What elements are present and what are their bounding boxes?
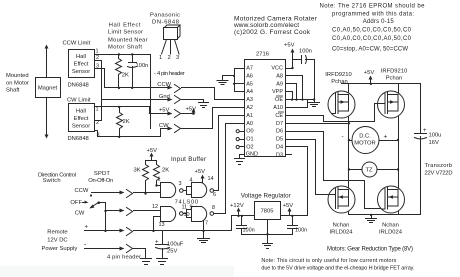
motor shaft line with arrows	[45, 45, 49, 139]
wire hall1 pin2 to gnd row	[95, 61, 102, 100]
svg-text:Note: This circuit is only use: Note: This circuit is only useful for lo…	[261, 258, 396, 264]
svg-text:22V V722D: 22V V722D	[425, 171, 453, 177]
wire right bus down to capacitor C6 and ground	[420, 84, 422, 215]
hall effect sensor U3 (CW limit) box	[69, 104, 95, 132]
pin numbers hall1	[96, 49, 100, 139]
svg-text:A10: A10	[273, 105, 283, 111]
svg-text:Shaft: Shaft	[6, 88, 20, 94]
capacitor C5 100n at reg output	[288, 216, 298, 235]
svg-text:Power Supply: Power Supply	[42, 246, 78, 252]
wire -12V after header to ground	[134, 249, 146, 259]
svg-text:D4: D4	[276, 145, 283, 151]
svg-text:+5V: +5V	[195, 169, 206, 175]
+5V arrow above 2716 VCC	[286, 49, 295, 69]
title block	[233, 16, 318, 36]
transzorb T2 circle	[362, 162, 377, 177]
svg-text:3: 3	[176, 55, 179, 61]
svg-text:2716: 2716	[256, 52, 269, 58]
svg-text:1: 1	[159, 55, 162, 61]
svg-text:A2: A2	[246, 105, 253, 111]
svg-text:A0: A0	[246, 121, 253, 127]
svg-text:O2: O2	[246, 145, 253, 151]
svg-text:OE: OE	[275, 97, 283, 103]
svg-text:On-Off-On: On-Off-On	[88, 178, 113, 184]
wire Q2 source to +5V rail	[398, 84, 400, 94]
motor M2 D.C. MOTOR	[352, 127, 379, 154]
svg-text:+: +	[155, 240, 159, 246]
svg-text:A8: A8	[276, 73, 283, 79]
regulator ground rail	[242, 220, 293, 244]
direction switch S1 OFF arrow	[83, 201, 89, 204]
svg-text:A6: A6	[246, 73, 253, 79]
svg-text:4: 4	[190, 178, 193, 184]
svg-text:-: -	[154, 71, 156, 77]
wire U4A out to U4B inputs	[184, 187, 192, 195]
ground symbol (regulator)	[263, 244, 273, 249]
junction dots gate inputs	[144, 184, 157, 194]
right motor bus	[398, 122, 400, 188]
capacitor C2 100uF 25V electrolytic	[156, 231, 170, 259]
ground symbol (A7-A4)	[217, 81, 228, 85]
ground symbol (2716 GND)	[235, 159, 245, 165]
svg-text:D7: D7	[276, 121, 283, 127]
gate pin numbers	[152, 176, 216, 228]
wire switch common to CW out and +12 rail	[99, 203, 106, 231]
svg-text:Panasonic: Panasonic	[150, 13, 180, 19]
svg-text:100n: 100n	[136, 63, 149, 69]
svg-text:Pchan: Pchan	[331, 79, 347, 85]
svg-text:Nchan: Nchan	[333, 223, 350, 229]
svg-text:MOTOR: MOTOR	[354, 141, 375, 147]
capacitor C3 100n at 2716 VCC	[293, 56, 315, 64]
svg-text:C0=stop, A0=CW, 50=CCW: C0=stop, A0=CW, 50=CCW	[332, 47, 408, 53]
svg-text:100n: 100n	[243, 228, 255, 234]
ground symbol (2716 right)	[309, 100, 320, 107]
svg-text:on Motor: on Motor	[6, 81, 29, 87]
svg-text:C0,A0,C0,C0,C0,A0,50,C0: C0,A0,C0,C0,C0,A0,50,C0	[332, 36, 412, 42]
svg-text:+: +	[85, 225, 89, 231]
wire CCW switch line to gate1 input pin2	[134, 192, 161, 194]
transistor Q1 IRFD9210 Pchan	[328, 91, 355, 118]
svg-text:2K: 2K	[123, 119, 130, 125]
svg-text:D3: D3	[276, 152, 283, 158]
svg-text:A3: A3	[246, 97, 253, 103]
svg-text:CW: CW	[159, 123, 169, 129]
overlines for OE and CE	[276, 96, 284, 112]
wire motor left pin	[349, 140, 353, 142]
svg-text:SPDT: SPDT	[94, 171, 110, 177]
wire CW row	[161, 128, 169, 130]
wire TZ right	[377, 169, 399, 171]
wire D6 row to Q4 gate (N-FET right)	[286, 132, 382, 209]
svg-text:C0,A0,50,C0,C0,C0,50,C0: C0,A0,50,C0,C0,C0,50,C0	[332, 28, 412, 34]
svg-text:Voltage Regulator: Voltage Regulator	[241, 193, 291, 200]
svg-text:DN-6848: DN-6848	[152, 20, 179, 26]
wire U4B output to 2716 A1	[214, 116, 245, 191]
wire +5V row	[150, 113, 169, 115]
svg-text:Motor Shaft: Motor Shaft	[108, 45, 142, 51]
wire VPP stub	[286, 92, 293, 100]
svg-text:9: 9	[190, 205, 193, 211]
wire CCW header out to 2716 A3	[182, 88, 245, 100]
svg-text:11: 11	[182, 205, 188, 211]
svg-text:Sensor: Sensor	[72, 124, 90, 130]
svg-text:D6: D6	[276, 129, 283, 135]
svg-text:Hall Effect: Hall Effect	[109, 23, 141, 29]
wire hall1 pin1 Vcc row	[95, 54, 151, 56]
+5V rail for pullups with arrow	[146, 153, 157, 161]
svg-text:16V: 16V	[429, 140, 439, 146]
svg-text:+5V: +5V	[283, 203, 294, 209]
2716 EPROM U1 body	[245, 60, 286, 157]
wire GND pin to ground	[240, 155, 245, 159]
svg-text:(c)2002 G. Forrest Cook: (c)2002 G. Forrest Cook	[234, 29, 311, 36]
wire Gnd row	[102, 99, 169, 101]
wire hall2 pin1 Vcc	[95, 107, 150, 114]
svg-text:+5V: +5V	[186, 107, 197, 113]
wire +12V supply row	[85, 229, 125, 233]
svg-text:Hall: Hall	[76, 54, 86, 60]
svg-text:DN6848: DN6848	[68, 83, 89, 89]
svg-text:CCW: CCW	[157, 82, 171, 88]
wire U4 pin7 to ground	[203, 221, 205, 239]
wire vertical bus to +5V row	[150, 55, 152, 129]
bottom note	[261, 258, 414, 271]
svg-text:2: 2	[168, 55, 171, 61]
capacitor C1 100n (hall1)	[128, 55, 137, 88]
wire D7 row to left motor bus	[286, 123, 349, 125]
resistor R3 3K pullup	[143, 161, 149, 194]
svg-text:8: 8	[212, 205, 215, 211]
svg-text:CE: CE	[275, 113, 283, 119]
header J1 arrows into connector	[168, 86, 173, 131]
svg-text:100n: 100n	[299, 49, 312, 55]
svg-text:A9: A9	[276, 81, 283, 87]
capacitor C4 100n at reg input	[237, 216, 247, 235]
svg-text:1: 1	[158, 177, 161, 183]
resistor R2 2K (hall2 pullup)	[117, 107, 123, 137]
svg-text:Transzorb: Transzorb	[425, 163, 453, 169]
svg-text:GND: GND	[246, 151, 258, 157]
wire D3 stub	[286, 154, 292, 156]
NAND gate U4B 74LS00	[192, 183, 214, 198]
+5V arrow at regulator output	[288, 208, 292, 216]
junction dots on +12 rail	[152, 230, 204, 232]
svg-text:due to the 5V drive voltage an: due to the 5V drive voltage and the el-c…	[261, 265, 414, 271]
ground symbol (supply minus)	[141, 259, 152, 265]
svg-text:A5: A5	[246, 81, 253, 87]
svg-text:Note: The 2716 EPROM should be: Note: The 2716 EPROM should be	[320, 4, 426, 10]
svg-text:Gnd: Gnd	[159, 94, 170, 100]
resistor R1 2K (hall1 pullup)	[116, 55, 122, 88]
svg-text:Input Buffer: Input Buffer	[171, 156, 206, 163]
svg-text:3: 3	[97, 133, 100, 139]
svg-text:10: 10	[184, 212, 190, 218]
svg-text:12: 12	[152, 204, 158, 210]
svg-text:12V DC: 12V DC	[47, 238, 67, 244]
wire +12V rail after header to regulator	[134, 216, 255, 231]
svg-text:Sensor: Sensor	[72, 69, 90, 75]
svg-text:Mounted: Mounted	[6, 73, 29, 79]
unconnected outputs O0 O1 O2 stubs	[236, 130, 244, 149]
ground symbol (U4 pin7)	[198, 239, 210, 243]
junction dots regulator	[237, 215, 293, 236]
svg-text:Switch: Switch	[43, 178, 61, 184]
wire A10 row	[286, 100, 308, 108]
resistor R4 2K pullup	[154, 161, 160, 186]
wire A7-A4 tie to ground	[223, 69, 245, 92]
wire CE row to Q2 gate (P-FET right)	[286, 104, 378, 122]
svg-text:Magnet: Magnet	[38, 86, 58, 92]
svg-text:Hall: Hall	[76, 109, 86, 115]
wire Q1 source to +5V rail	[348, 84, 350, 94]
svg-text:25V: 25V	[167, 249, 177, 255]
svg-text:CW Limit: CW Limit	[67, 98, 91, 104]
direction switch S1 CCW throw	[90, 191, 125, 197]
magnet M1	[36, 78, 61, 98]
NAND gate U4A 74LS00	[161, 183, 184, 198]
wire CCW row	[105, 87, 169, 89]
svg-text:+12V: +12V	[230, 203, 244, 209]
wire hall1 pin3 to CCW row	[95, 69, 105, 88]
svg-text:4 pin header: 4 pin header	[157, 71, 185, 77]
svg-text:IRFD9210: IRFD9210	[381, 69, 407, 75]
svg-text:+5V: +5V	[147, 148, 158, 154]
wire CW header out to 2716 A2	[182, 108, 245, 129]
junction dots H-bridge	[348, 83, 400, 217]
+12V arrow at regulator input	[237, 208, 241, 216]
svg-text:VCC: VCC	[271, 66, 283, 72]
ground symbol (H-bridge)	[366, 215, 377, 223]
svg-text:4 pin header: 4 pin header	[107, 255, 141, 261]
svg-text:2K: 2K	[122, 73, 129, 79]
svg-text:D5: D5	[276, 137, 283, 143]
svg-text:-: -	[342, 133, 344, 140]
svg-text:VPP: VPP	[272, 89, 283, 95]
wire Q1 drain to left bus	[348, 116, 350, 124]
svg-text:programmed with this data:: programmed with this data:	[332, 12, 414, 18]
wire hall2 pin3 row to CW row	[95, 129, 161, 137]
junction dots switch	[104, 210, 106, 232]
2716 left pin labels	[246, 66, 258, 158]
svg-text:3: 3	[96, 64, 99, 70]
svg-text:2K: 2K	[162, 168, 169, 174]
svg-text:1: 1	[96, 49, 99, 55]
svg-text:100u: 100u	[429, 133, 442, 139]
wire hall2 pin2 up to gnd row	[95, 100, 102, 121]
svg-text:A1: A1	[246, 113, 253, 119]
wire C3 to ground	[314, 60, 316, 102]
svg-text:1: 1	[96, 107, 99, 113]
wire R4 to gate1 pin1	[157, 185, 161, 187]
svg-text:Motors: Gear Reduction Type: Motors: Gear Reduction Type (8V)	[327, 247, 413, 253]
wire Q2 drain to right bus	[398, 116, 400, 122]
wire D4 row +5V riser from regulator	[286, 147, 308, 216]
svg-text:+5V: +5V	[284, 43, 295, 49]
svg-text:Remote: Remote	[47, 230, 67, 236]
junction dots 2716 right	[291, 67, 315, 101]
Panasonic DN-6848 package drawing	[162, 25, 181, 54]
svg-text:2: 2	[96, 55, 99, 61]
svg-text:Effect: Effect	[74, 116, 89, 122]
junction dots A7-A4 tie	[233, 75, 235, 85]
svg-text:Addrs 0-15: Addrs 0-15	[363, 19, 395, 25]
svg-text:DN6848: DN6848	[68, 136, 89, 142]
svg-text:Limit Sensor: Limit Sensor	[108, 30, 143, 36]
wire OE row to ground	[286, 99, 315, 101]
wire U4C pin13 to rail	[154, 217, 161, 231]
wire regulator output +5V	[281, 215, 308, 217]
hall effect sensor U2 (CCW limit) box	[69, 50, 95, 78]
+5V rail of H-bridge with arrow	[342, 76, 421, 84]
wire CW out row	[106, 209, 125, 213]
svg-text:D.C.: D.C.	[359, 134, 371, 140]
svg-text:6: 6	[213, 192, 216, 198]
EPROM programming note	[320, 4, 426, 53]
transistor Q4 IRLD024 Nchan	[378, 186, 405, 213]
svg-text:OFF: OFF	[70, 200, 82, 206]
NAND gate U4D 74LS00	[192, 207, 214, 222]
header J1 pin chevrons	[175, 85, 181, 133]
svg-text:IRLD024: IRLD024	[379, 230, 403, 236]
svg-text:14: 14	[208, 176, 214, 182]
svg-text:CW: CW	[75, 211, 85, 217]
svg-text:13: 13	[159, 222, 165, 228]
svg-text:2: 2	[96, 120, 99, 126]
svg-text:3: 3	[179, 181, 182, 187]
voltage regulator U5 7805	[255, 202, 281, 220]
svg-text:CCW: CCW	[75, 188, 89, 194]
wire A8 row	[286, 76, 303, 100]
left motor bus	[348, 124, 350, 189]
svg-text:IRLD024: IRLD024	[330, 230, 354, 236]
svg-text:Effect: Effect	[74, 62, 89, 68]
svg-text:+: +	[423, 128, 427, 134]
svg-text:Pchan: Pchan	[386, 76, 402, 82]
+5V arrow on header +5V	[182, 108, 196, 115]
svg-text:7805: 7805	[261, 209, 274, 215]
svg-text:+5V: +5V	[159, 108, 170, 114]
svg-text:3K: 3K	[134, 168, 141, 174]
wire A9 row	[286, 84, 297, 100]
svg-text:100n: 100n	[295, 228, 307, 234]
svg-text:TZ: TZ	[365, 168, 373, 174]
svg-text:+: +	[384, 134, 388, 141]
svg-text:A7: A7	[246, 66, 253, 72]
svg-text:O1: O1	[246, 137, 253, 143]
ground rail of H-bridge	[349, 207, 421, 215]
NAND gate U4C 74LS00	[161, 207, 184, 222]
wire -12V supply row	[85, 247, 125, 251]
svg-text:O0: O0	[246, 129, 253, 135]
svg-text:Nchan: Nchan	[382, 223, 399, 229]
svg-text:A4: A4	[246, 89, 253, 95]
svg-text:Mounted Near: Mounted Near	[108, 38, 148, 44]
wire CW switch line to gate3 input pin12	[134, 210, 161, 212]
+5V to U4 pin14	[201, 175, 205, 183]
direction switch S1 blade	[90, 201, 100, 208]
ground symbol (C2)	[157, 259, 168, 265]
wire U4C out to U4D inputs	[184, 210, 192, 218]
svg-text:CCW Limit: CCW Limit	[63, 41, 91, 47]
wire D5 row to Q3 gate (N-FET left)	[286, 140, 329, 195]
svg-text:IRFD9210: IRFD9210	[325, 72, 351, 78]
2716 right pin labels	[271, 66, 283, 159]
transistor Q2 IRFD9210 Pchan	[378, 91, 405, 118]
capacitor C6 100u 16V	[415, 134, 427, 140]
wire Gnd header out	[182, 100, 204, 103]
wire motor right pin	[379, 140, 399, 142]
transistor Q3 IRLD024 Nchan	[328, 186, 355, 213]
ground symbol (header gnd)	[199, 103, 209, 108]
junction dots hall rows	[118, 53, 151, 138]
wire U4D output to 2716 A0	[214, 124, 245, 214]
header J2 pin chevrons	[127, 190, 133, 253]
svg-text:7: 7	[205, 221, 208, 227]
wire TZ left	[349, 169, 363, 171]
svg-text:+5V: +5V	[364, 70, 375, 76]
svg-text:100uF: 100uF	[167, 242, 184, 248]
